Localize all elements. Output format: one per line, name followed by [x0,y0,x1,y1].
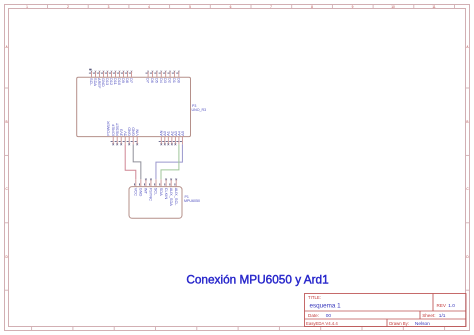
svg-text:AUX_SDA: AUX_SDA [169,188,174,207]
svg-text:D6: D6 [150,78,155,83]
pin names (top-left header) [89,78,134,89]
sheet frame row ticks (left edge) [5,88,9,290]
svg-text:10: 10 [391,5,395,9]
MPU6050 module body P1 [129,187,182,219]
svg-text:D5: D5 [154,78,159,83]
svg-text:D4: D4 [159,78,164,84]
svg-text:9: 9 [352,5,354,9]
svg-text:EasyEDA V4.4.4: EasyEDA V4.4.4 [306,321,338,326]
svg-text:GND: GND [139,188,144,197]
pin names (bottom-left header) [111,122,140,136]
wire SDA (green) from UNO A4 pin to MPU6050 SDA [161,144,179,179]
svg-text:2: 2 [67,5,69,9]
pin names (MPU6050) [134,188,179,207]
svg-text:INT: INT [144,188,149,195]
svg-text:D1: D1 [172,78,177,83]
connector J4 analog header (bottom-right) pins [161,137,182,145]
svg-text:D7: D7 [129,78,134,83]
svg-text:A5: A5 [180,131,185,136]
svg-text:Date:: Date: [308,313,319,318]
wire GND (dark gray) from UNO GND pin to MPU6050 GND [133,144,141,179]
svg-text:11: 11 [432,5,436,9]
svg-text:B: B [6,120,8,124]
wire SCL (blue) from UNO A5 pin to MPU6050 SCL [156,144,182,179]
pin x-marks (bottom-right header, unconnected pins only) [160,144,176,146]
svg-text:SDA: SDA [159,188,164,196]
pin numbers (top-left header) [89,72,131,75]
pin numbers (top-right header) [146,72,179,75]
pin x-marks (MPU6050, unconnected pins only) [145,178,177,180]
svg-text:8: 8 [311,5,313,9]
svg-text:CLKIN: CLKIN [164,188,169,200]
connector J2 digital header (top-right) pins [148,71,179,77]
svg-text:D3: D3 [163,78,168,83]
svg-text:VCC: VCC [134,188,139,196]
pin numbers (bottom-left header) [111,140,137,143]
MPU6050 pins (top) [136,179,176,186]
svg-text:C: C [466,187,469,191]
svg-text:VIN: VIN [135,129,140,136]
svg-text:1: 1 [26,5,28,9]
pin names (bottom-right header) [159,130,185,136]
svg-text:C: C [5,187,8,191]
svg-text:Sheet:: Sheet: [422,313,435,318]
svg-text:4: 4 [148,5,150,9]
svg-text:00: 00 [326,313,332,319]
svg-text:REV: REV [437,303,447,308]
svg-text:esquema 1: esquema 1 [310,303,342,310]
sheet frame column ticks (top edge) [48,5,455,9]
Arduino UNO R3 shield body P3 [77,77,191,136]
pin x-marks (top-left header) [91,70,133,72]
sheet frame column ticks (bottom edge) [32,327,445,331]
pin x-marks (bottom-left header, unconnected pins only) [112,144,138,146]
pin number 10 annotation at first top-left pin [89,69,91,71]
svg-text:A: A [466,45,469,49]
pin numbers (MPU6050) [134,183,175,185]
svg-text:D7: D7 [146,78,151,83]
wire 5V (red) from UNO 5V pin to MPU6050 VCC [125,144,136,179]
svg-text:6: 6 [230,5,232,9]
pin names (top-right header) [146,78,182,84]
svg-text:3: 3 [108,5,110,9]
svg-text:B: B [466,120,468,124]
svg-text:MPU6050: MPU6050 [184,199,200,203]
connector J3 power header (bottom-left) pins [113,137,137,145]
svg-text:AUX_SCL: AUX_SCL [174,188,179,207]
sheet frame row ticks (right edge) [466,88,470,290]
sheet frame row letters [5,45,469,259]
svg-text:D: D [5,255,8,259]
title block [305,294,467,328]
pin x-marks (top-right header) [147,70,180,72]
svg-text:TITLE:: TITLE: [308,295,321,300]
svg-text:D0: D0 [176,78,181,84]
svg-text:Conexión MPU6050 y Ard1: Conexión MPU6050 y Ard1 [186,272,328,286]
pin numbers (bottom-right header) [159,140,182,143]
svg-text:1.0: 1.0 [448,303,455,309]
sheet frame column numbers [26,5,436,9]
svg-text:SCL: SCL [154,188,159,196]
connector J1 digital/I2C header (top-left) pins [92,71,132,77]
svg-text:D2: D2 [168,78,173,83]
svg-text:Drawn By:: Drawn By: [389,321,409,326]
svg-text:7: 7 [270,5,272,9]
svg-text:UNO_R3: UNO_R3 [192,108,207,112]
svg-text:Nelson: Nelson [415,321,430,327]
svg-text:5: 5 [189,5,191,9]
svg-text:1/1: 1/1 [439,313,446,319]
svg-text:D: D [466,255,469,259]
svg-text:FSYNC: FSYNC [149,188,154,201]
